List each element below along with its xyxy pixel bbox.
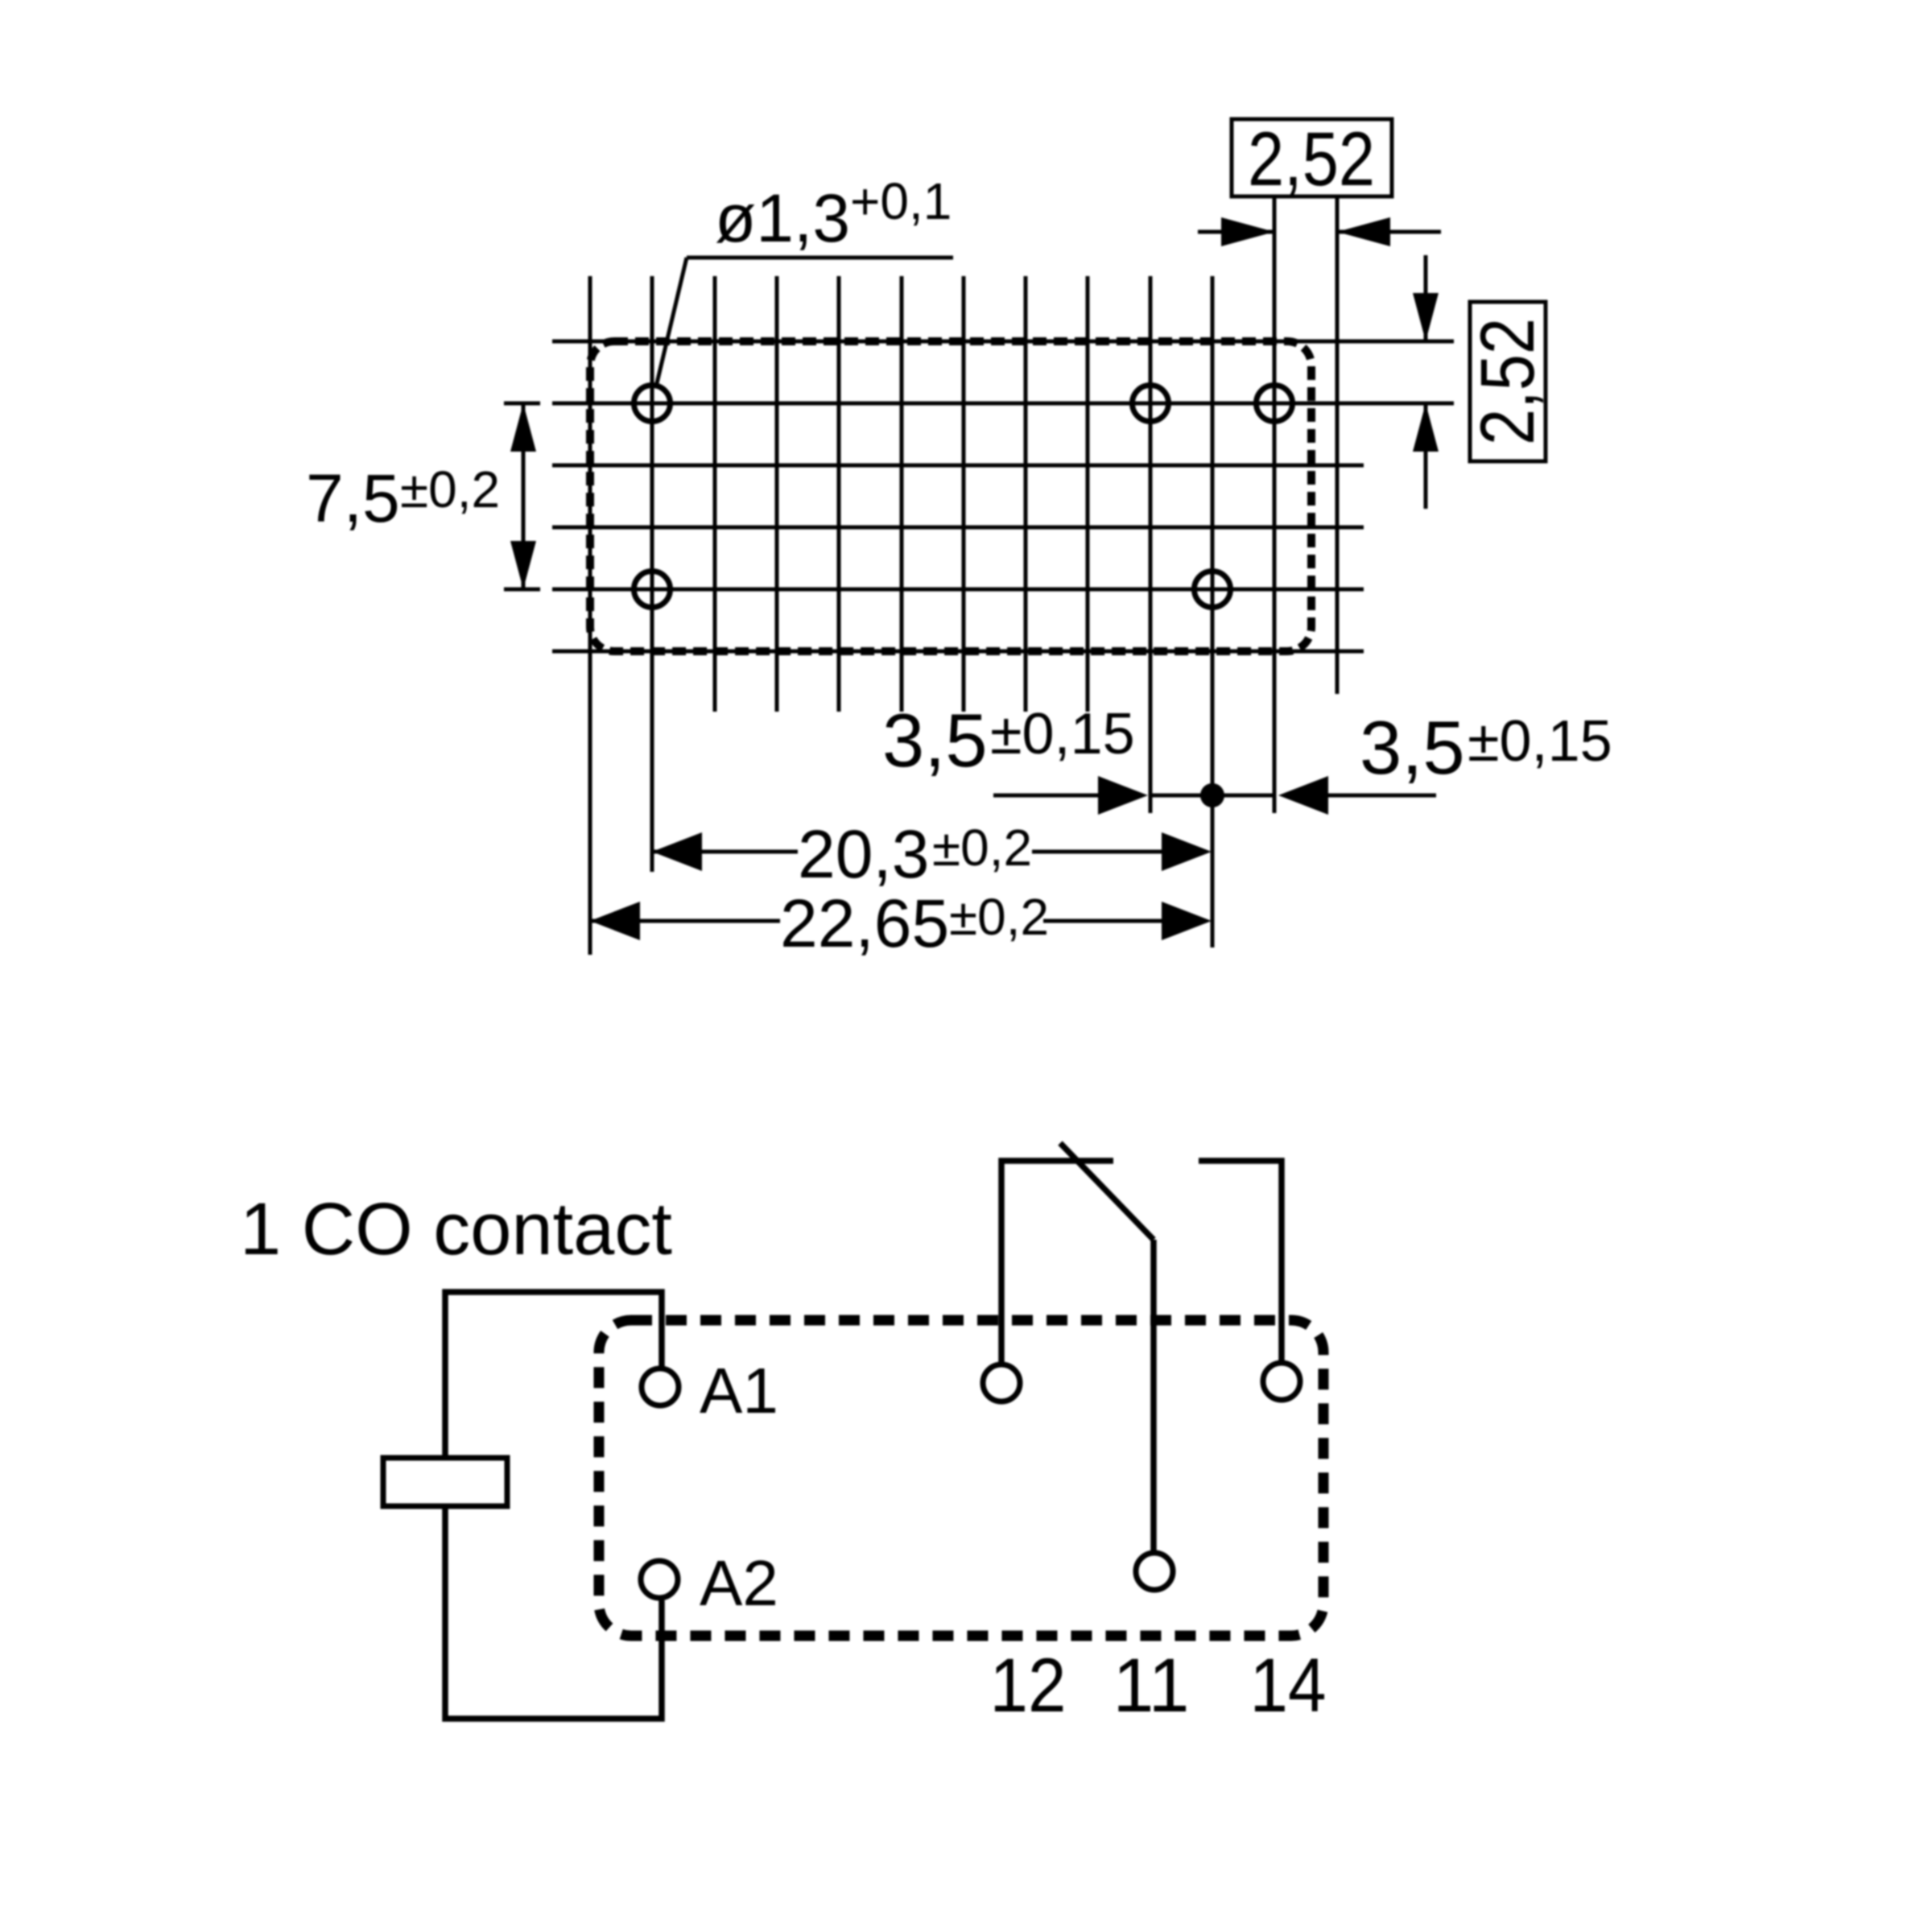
grid column 5 [900, 276, 904, 712]
grid column 11 / dim extension [1273, 196, 1277, 813]
terminal 12 [983, 1364, 1020, 1402]
grid row 2 [552, 464, 1364, 468]
switch blade [1060, 1143, 1154, 1240]
grid row 4 / bottom holes axis [552, 588, 1364, 592]
left 3,5 dimension [993, 776, 1274, 815]
contact 11 wire [1150, 1240, 1157, 1550]
svg-text:14: 14 [1250, 1643, 1327, 1728]
terminal A1 [642, 1368, 679, 1406]
svg-text:±0,2: ±0,2 [949, 888, 1049, 946]
footprint dashed outline [590, 341, 1311, 651]
grid column 10 / pin 11 axis [1211, 276, 1215, 947]
grid column 0 [588, 276, 592, 955]
terminal 11 [1136, 1553, 1173, 1590]
leader line for hole diameter [657, 258, 953, 383]
svg-text:±0,15: ±0,15 [1468, 709, 1612, 774]
grid column 8 [1086, 276, 1090, 712]
grid column 7 [1024, 276, 1028, 712]
svg-text:±0,2: ±0,2 [932, 819, 1032, 877]
top 2,52 boxed label [1232, 117, 1392, 202]
grid column 9 [1149, 276, 1153, 813]
grid column 4 [837, 276, 841, 712]
svg-text:2,52: 2,52 [1248, 117, 1375, 202]
top 2,52 dimension arrows [1198, 217, 1441, 246]
svg-text:11: 11 [1113, 1643, 1190, 1728]
svg-text:22,65: 22,65 [780, 885, 949, 961]
svg-text:±0,15: ±0,15 [990, 702, 1135, 766]
label 3,5 +-0,15 left [882, 698, 1135, 782]
coil wire top [445, 1292, 662, 1458]
dimension 7,5 vertical line [504, 403, 540, 589]
svg-text:1 CO contact: 1 CO contact [240, 1188, 672, 1270]
grid row 3 [552, 526, 1364, 530]
right 2,52 dimension arrows [1413, 255, 1439, 509]
svg-text:7,5: 7,5 [306, 460, 400, 536]
hole pin 12 [1133, 386, 1169, 422]
terminal 14 [1263, 1363, 1300, 1400]
grid column 6 [962, 276, 966, 712]
svg-text:2,52: 2,52 [1465, 318, 1550, 445]
label 22,65 +-0,2 [780, 885, 1049, 961]
grid row 1 / top holes axis [552, 402, 1454, 406]
right 2,52 boxed label (rotated) [1465, 302, 1550, 461]
dimension 7,5 arrowheads [510, 403, 536, 589]
label 3,5 +-0,15 right [1360, 705, 1612, 790]
svg-text:±0,2: ±0,2 [400, 460, 500, 518]
grid row 0 / footprint top extension [552, 340, 1454, 344]
grid column 2 [713, 276, 717, 712]
contact 12 wire [1001, 1161, 1113, 1362]
coil [383, 1458, 507, 1506]
label 20,3 +-0,2 [798, 816, 1032, 892]
hole pin 14 [1257, 386, 1293, 422]
grid column 12 / dim extension [1335, 196, 1340, 694]
terminal A2 [641, 1561, 678, 1598]
dimension 22,65 [590, 902, 1212, 940]
grid column 1 [650, 276, 654, 872]
grid column 3 [775, 276, 779, 712]
label hole diameter o1,3 +0,1 [715, 172, 952, 256]
schematic dashed relay outline [599, 1320, 1323, 1636]
svg-text:3,5: 3,5 [882, 698, 988, 782]
svg-text:A1: A1 [700, 1355, 778, 1426]
hole A1 [634, 386, 671, 422]
hole pin 11 [1195, 572, 1231, 608]
grid row 5 / footprint bottom extension [552, 650, 1364, 654]
label 7,5 +-0,2 [306, 460, 500, 536]
coil wire bottom [445, 1506, 662, 1719]
right 3,5 dimension [1278, 776, 1436, 815]
svg-text:3,5: 3,5 [1360, 705, 1465, 790]
svg-text:12: 12 [990, 1643, 1067, 1728]
contact 14 wire [1199, 1161, 1282, 1360]
dimension 20,3 [652, 832, 1212, 871]
svg-text:+0,1: +0,1 [850, 172, 952, 230]
svg-text:20,3: 20,3 [798, 816, 930, 892]
svg-text:A2: A2 [700, 1547, 778, 1619]
reference dot on pin 11 axis [1200, 783, 1224, 807]
hole A2 [634, 572, 671, 608]
svg-text:ø1,3: ø1,3 [715, 180, 850, 256]
